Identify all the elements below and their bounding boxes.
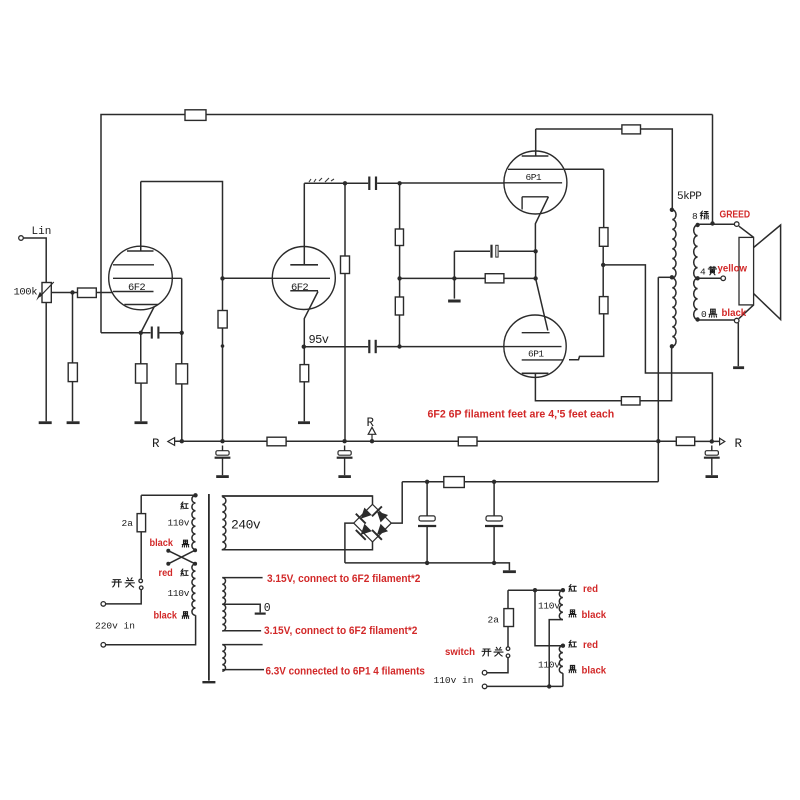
- wire R4 to ground: [140, 383, 142, 421]
- T1 parallel 110v winding B: [559, 646, 563, 674]
- wire V2 plate up: [303, 183, 305, 264]
- svg-text:220v in: 220v in: [95, 621, 135, 632]
- wire 0 tap out: [698, 319, 735, 321]
- label black B: [582, 665, 607, 676]
- svg-text:110v: 110v: [168, 518, 190, 529]
- junction pot wiper node: [70, 290, 74, 294]
- junction V3 cathode: [533, 249, 537, 253]
- junction cathode tie: [533, 276, 537, 280]
- transformer T1 core: [208, 494, 210, 681]
- V3 cathode slant down: [535, 197, 548, 252]
- label red red T1b: [159, 568, 173, 579]
- glyph guan right: [494, 647, 503, 656]
- svg-text:3.15V, connect to 6F2 filament: 3.15V, connect to 6F2 filament*2: [264, 625, 418, 637]
- V4 screen bar: [522, 359, 564, 361]
- V1 bottom electrode bar: [124, 304, 158, 306]
- label black A: [582, 610, 607, 621]
- node R rail left arrow: [168, 438, 175, 446]
- V1 cathode slant: [141, 307, 155, 333]
- resistor R9 V3 grid leak: [395, 229, 403, 246]
- wire V3 plate up: [535, 129, 537, 156]
- wire bias cap right: [499, 250, 536, 252]
- terminal 0: [734, 318, 739, 323]
- tube V2 6F2 (triode section) envelope: [272, 247, 335, 310]
- wire 240v bottom: [222, 549, 372, 551]
- glyph kai left: [112, 580, 121, 587]
- svg-text:6F2: 6F2: [128, 282, 145, 294]
- resistor R12 plate parasitic: [622, 125, 641, 134]
- junction C9 top: [492, 480, 496, 484]
- junction C8 bottom: [425, 561, 429, 565]
- wire R9 to bias node: [399, 246, 401, 279]
- terminal 8ohm: [734, 222, 739, 227]
- glyph black B: [569, 665, 576, 672]
- transformer T2 secondary 4ohm section: [694, 278, 698, 319]
- ground core: [202, 681, 215, 683]
- wire screen chain middle: [602, 246, 604, 296]
- junction secondary 0 tap: [695, 317, 699, 321]
- svg-text:5kPP: 5kPP: [677, 191, 702, 203]
- tube V4 6P1 (lower) envelope: [504, 315, 566, 377]
- resistor R7 V2 cathode: [300, 365, 309, 382]
- V3 cathode bar: [522, 197, 548, 210]
- artifact tick marks: [309, 178, 334, 182]
- wire center tap: [658, 276, 672, 278]
- wires C8 leads: [426, 482, 428, 563]
- junction V4 grid node: [397, 344, 401, 348]
- resistor R17 rail: [458, 437, 477, 446]
- wire R10 to lower grid node: [399, 315, 401, 347]
- svg-text:black: black: [150, 538, 174, 549]
- speaker SP1 cone: [754, 225, 781, 320]
- junction rail R8/C6: [342, 439, 346, 443]
- V4 plate bar: [522, 372, 549, 374]
- wire grid leak down: [72, 293, 74, 363]
- wire feedback top segment: [206, 114, 713, 116]
- junction rail R arrow up: [370, 439, 374, 443]
- svg-text:2a: 2a: [488, 615, 500, 626]
- resistor R18 rail: [676, 437, 694, 446]
- potentiometer RP1 100k body: [42, 283, 51, 303]
- wire to cathode bias node: [400, 277, 455, 279]
- wire cathode tie to V4 cathode: [536, 278, 548, 330]
- wire plate load upper: [222, 278, 224, 310]
- wire fuse to switch: [140, 532, 142, 579]
- junction screen node: [180, 331, 184, 335]
- V2 cathode slant and drop: [304, 292, 318, 347]
- junction grid leak mid: [397, 276, 401, 280]
- svg-text:black: black: [582, 665, 607, 676]
- V1 control grid bar: [113, 291, 154, 293]
- label red A: [583, 584, 598, 595]
- fuse F1 2a: [137, 514, 146, 532]
- glyph red 1: [181, 502, 188, 509]
- tube V3 6P1 (upper) envelope: [504, 151, 567, 214]
- wire screen node to R5: [181, 333, 183, 364]
- transformer T2 primary winding: [672, 210, 676, 346]
- ground filament CT: [255, 612, 266, 614]
- wire 4ohm tap out: [698, 277, 721, 279]
- junction V2 cathode node: [302, 345, 306, 349]
- svg-text:GREED: GREED: [720, 209, 751, 221]
- wire fuse to primary top: [141, 494, 195, 496]
- wire rail seg3: [477, 440, 676, 442]
- T1 secondary 3.15v upper: [222, 578, 225, 605]
- resistor R5 screen feed: [176, 364, 188, 384]
- wire pot bottom to ground: [45, 303, 47, 422]
- wire R11 right lead: [504, 277, 536, 279]
- glyph red B: [569, 640, 576, 647]
- wires C9 leads: [493, 482, 495, 563]
- svg-text:red: red: [159, 568, 173, 579]
- wire V3 screen out: [563, 168, 603, 170]
- V3 plate bar: [522, 155, 549, 157]
- junction secondary 4 tap: [695, 276, 699, 280]
- wire AC2 to 240v bottom: [222, 542, 373, 550]
- V3 screen bar: [508, 168, 563, 170]
- label black red T1a: [150, 538, 174, 549]
- svg-text:110v in: 110v in: [434, 675, 474, 686]
- junction winding A return: [547, 684, 551, 688]
- label red B: [583, 640, 598, 651]
- wire rail seg2: [286, 440, 458, 442]
- wire 6.3v bottom lead: [222, 669, 264, 671]
- junction rail R5: [180, 439, 184, 443]
- capacitor C3 coupling bottom: [368, 340, 370, 353]
- potentiometer RP1 wiper arrow: [40, 282, 54, 297]
- capacitor C5 rail filter: [216, 451, 229, 456]
- wire to OPT primary bottom: [640, 347, 672, 401]
- wire 3.15v bottom lead: [222, 630, 261, 632]
- junction 110v top: [533, 588, 537, 592]
- wire bias cap left: [454, 250, 490, 252]
- node R arrow up: [368, 427, 376, 434]
- resistor R6 V1 plate load: [218, 311, 227, 329]
- resistor R8 V2 plate load: [341, 256, 350, 274]
- glyph guan left: [125, 578, 134, 587]
- junction feedback takeoff: [710, 221, 714, 225]
- wire to V3 grid: [400, 182, 504, 184]
- wire V4 screen out jog: [569, 314, 604, 360]
- wire winding B bottom: [562, 673, 564, 686]
- glyph red 2: [181, 569, 188, 576]
- wire V1 screen drop: [181, 278, 183, 332]
- capacitor C8 PSU filter: [419, 516, 435, 521]
- V2 plate bar: [290, 264, 318, 266]
- diode D4: [377, 524, 388, 535]
- V1 screen grid bar: [113, 264, 154, 266]
- resistor R15 screen V4: [599, 297, 608, 314]
- T1 secondary 6.3v: [222, 645, 225, 672]
- glyph green: [700, 211, 708, 219]
- svg-text:2a: 2a: [122, 518, 134, 529]
- wire V2 plate node: [304, 182, 345, 184]
- wire 110v bottom link: [487, 685, 563, 687]
- wire fuse2 top lead: [507, 590, 509, 608]
- wire grid resistor lower upper-lead: [399, 278, 401, 297]
- terminal 220v neutral: [101, 643, 106, 648]
- wire R11 left lead: [454, 277, 485, 279]
- svg-text:0: 0: [701, 309, 707, 320]
- svg-text:110v: 110v: [538, 601, 560, 612]
- wire V3 plate top left: [536, 128, 622, 130]
- svg-text:red: red: [583, 584, 598, 595]
- svg-text:6.3V connected to 6P1 4 filame: 6.3V connected to 6P1 4 filaments: [266, 666, 426, 678]
- svg-text:3.15V, connect to 6F2 filament: 3.15V, connect to 6F2 filament*2: [267, 573, 421, 585]
- wire screen feed to rail: [603, 265, 712, 442]
- wire fuse lead top: [140, 495, 142, 513]
- wire 240v top: [222, 495, 372, 497]
- wire R1 to V1 grid: [96, 292, 113, 294]
- wire V2 grid entry: [223, 277, 273, 279]
- wire R5 to B+ rail: [181, 384, 183, 441]
- wire C3 to V4 grid: [377, 346, 504, 348]
- wire PSU 0V rail: [345, 563, 510, 570]
- label black red T1b: [154, 610, 178, 621]
- junction winding A top: [561, 588, 565, 592]
- wire 6.3v top lead: [222, 644, 262, 646]
- tube V1 6F2 (pentode section) envelope: [109, 246, 173, 310]
- fuse F2 2a: [504, 609, 514, 627]
- capacitor C1 cathode bypass: [151, 327, 153, 339]
- label 6.3V red: [266, 666, 426, 678]
- wire R6 to B+ rail: [222, 328, 224, 441]
- svg-text:6P1: 6P1: [526, 172, 542, 183]
- V2 cathode bar: [290, 290, 318, 292]
- wire cathode node left: [101, 332, 151, 334]
- junction plate load node: [343, 181, 347, 185]
- svg-text:240v: 240v: [231, 518, 261, 533]
- wire input to volume pot: [23, 238, 46, 283]
- resistor R11 cathode bias: [485, 274, 504, 283]
- wire 8ohm tap out: [698, 223, 735, 225]
- V4 grid bar: [504, 346, 562, 348]
- svg-text:6F2: 6F2: [291, 282, 308, 294]
- wire bias node vertical: [453, 251, 455, 298]
- terminal 110v neutral: [482, 684, 487, 689]
- label switch red: [445, 647, 475, 658]
- wire V1 plate to V2 grid: [141, 182, 223, 279]
- terminal 220v live: [101, 602, 106, 607]
- transformer T2 secondary 8ohm section: [694, 225, 698, 278]
- resistor R2 grid leak: [68, 363, 77, 382]
- wire speaker ground: [737, 323, 739, 366]
- V1 grid2 bar exits right: [113, 277, 182, 279]
- junction 6P1#1 grid node: [397, 181, 401, 185]
- glyph black 2: [182, 612, 189, 619]
- wire screen chain upper: [603, 169, 605, 227]
- svg-text:black: black: [154, 610, 178, 621]
- ground pot: [39, 421, 52, 424]
- wire winding A bottom: [549, 620, 563, 687]
- label filament note red: [428, 408, 615, 420]
- svg-text:R: R: [367, 416, 375, 430]
- ground bias network: [448, 300, 461, 303]
- T1 primary winding 110v upper: [192, 495, 196, 549]
- wire R7 to ground: [303, 382, 305, 422]
- ground R2: [67, 421, 80, 424]
- wires C2 leads: [345, 182, 400, 184]
- wire switch to terminal: [106, 590, 142, 604]
- svg-text:6F2 6P filament feet are 4,'5: 6F2 6P filament feet are 4,'5 feet each: [428, 408, 615, 420]
- diode D2: [377, 511, 388, 522]
- wire to OPT primary top: [641, 129, 673, 210]
- capacitor C6 rail filter: [338, 451, 351, 456]
- wire cathode tie vertical: [535, 251, 537, 278]
- label GREED red: [720, 209, 751, 221]
- wire switch2 to terminal: [487, 658, 508, 673]
- wire bridge minus: [345, 523, 354, 563]
- wire winding B top link: [535, 590, 563, 646]
- ground PSU: [503, 570, 516, 573]
- junction winding B top: [561, 644, 565, 648]
- wire V1 plate up: [140, 182, 142, 252]
- wire R8 to B+ rail: [344, 274, 346, 442]
- label 3.15V lower red: [264, 625, 418, 637]
- glyph black 1: [182, 540, 189, 547]
- glyph yellow: [708, 266, 716, 274]
- wire bridge plus: [391, 482, 402, 523]
- junction rail B+ riser: [656, 439, 660, 443]
- diode D3: [361, 524, 372, 535]
- glyph kai right: [482, 649, 491, 656]
- wire 3.15v center tap: [222, 604, 260, 612]
- junction V1 cathode: [139, 331, 143, 335]
- resistor R3 feedback: [185, 110, 206, 121]
- T1 parallel 110v winding A: [559, 590, 563, 619]
- wire 220v neutral to primary2 bottom: [106, 615, 196, 645]
- wire AC1 to 240v top: [222, 496, 373, 504]
- junction C8 top: [425, 480, 429, 484]
- bridge rectifier D1-D4: [354, 504, 392, 542]
- wire rail seg1: [175, 440, 267, 442]
- junction bias node: [452, 276, 456, 280]
- svg-text:red: red: [583, 640, 598, 651]
- T1 secondary 3.15v lower: [222, 604, 225, 631]
- wire grid resistor upper: [399, 183, 401, 229]
- wire cathode to R7: [303, 347, 305, 365]
- T1 primary winding 110v lower: [192, 564, 196, 616]
- capacitor C9 PSU filter: [486, 516, 502, 521]
- svg-text:6P1: 6P1: [528, 349, 544, 360]
- junction primary bottom: [670, 344, 674, 348]
- wire 3.15v top lead: [222, 577, 262, 579]
- svg-text:100k: 100k: [14, 287, 38, 299]
- wire fuse2 to switch2: [507, 627, 509, 647]
- svg-text:110v: 110v: [168, 588, 190, 599]
- primary series cross link: [168, 550, 195, 564]
- V1 plate bar: [127, 250, 154, 252]
- wire 110v top link: [508, 589, 563, 591]
- glyph black A: [569, 610, 576, 617]
- wire B+ riser: [657, 277, 659, 482]
- ground speaker: [733, 366, 744, 369]
- terminal 4ohm: [721, 276, 726, 281]
- capacitor C7 rail filter right: [705, 451, 718, 456]
- svg-text:black: black: [722, 308, 747, 319]
- speaker lead top: [739, 226, 754, 237]
- wire 95v node to C3: [304, 346, 368, 348]
- svg-text:yellow: yellow: [718, 263, 748, 274]
- svg-text:R: R: [735, 437, 743, 451]
- junction rail right: [710, 439, 714, 443]
- ground R4: [135, 421, 148, 424]
- wire PSU B+ top: [402, 481, 658, 483]
- V2 grid bar: [272, 277, 330, 279]
- wire pot wiper to grid resistor: [51, 292, 77, 294]
- wire R8 upper lead: [344, 183, 346, 256]
- wire feedback left segment: [101, 115, 185, 333]
- speaker SP1 box: [739, 237, 754, 305]
- junction artifact dot: [221, 344, 225, 348]
- svg-text:4: 4: [700, 267, 706, 278]
- capacitor C2 coupling top: [368, 177, 370, 191]
- svg-text:R: R: [152, 437, 160, 451]
- wire cathode to R4: [140, 333, 142, 364]
- glyph black: [709, 309, 717, 317]
- junction secondary 8 tap: [695, 223, 699, 227]
- svg-text:0: 0: [264, 602, 271, 615]
- node R rail right arrow: [720, 438, 725, 445]
- glyph red A: [569, 584, 576, 591]
- junction primary center tap: [670, 275, 674, 279]
- label black red: [722, 308, 747, 319]
- ground R7: [298, 421, 310, 424]
- junction primary1 top: [193, 493, 197, 497]
- V3 grid bar: [504, 182, 562, 184]
- speaker lead bottom: [739, 305, 754, 319]
- capacitor C4 cathode bypass 6P1: [490, 245, 492, 258]
- wire rail seg4: [695, 440, 720, 442]
- V4 cathode bar: [522, 332, 550, 334]
- wire R2 to ground: [72, 382, 74, 422]
- wire feedback right segment to 8ohm tap: [712, 115, 714, 224]
- label 3.15V upper red: [267, 573, 421, 585]
- wire V4 plate down: [535, 373, 621, 401]
- junction primary top: [670, 208, 674, 212]
- svg-text:Lin: Lin: [32, 226, 52, 238]
- svg-text:110v: 110v: [538, 660, 560, 671]
- junction rail R6/C5: [220, 439, 224, 443]
- resistor R16 rail: [267, 437, 286, 446]
- svg-text:switch: switch: [445, 647, 475, 658]
- resistor R10 V4 grid leak: [395, 297, 403, 315]
- diode D1: [361, 508, 372, 519]
- wire C1 to screen node: [160, 332, 182, 334]
- svg-text:95v: 95v: [309, 333, 329, 347]
- resistor R19 PSU filter: [444, 477, 465, 488]
- resistor R1 grid stopper: [78, 288, 97, 298]
- resistor R14 screen V3: [599, 228, 608, 247]
- junction screen feed: [601, 263, 605, 267]
- terminal 110v live: [482, 670, 487, 675]
- switch S2: [506, 647, 510, 651]
- label yellow red: [718, 263, 748, 274]
- junction V2 grid node: [220, 276, 224, 280]
- input terminal Lin: [19, 236, 24, 241]
- junction C9 bottom: [492, 561, 496, 565]
- resistor R13 plate parasitic: [621, 397, 640, 405]
- svg-text:black: black: [582, 610, 607, 621]
- resistor R4 V1 cathode: [136, 364, 148, 383]
- switch S1: [139, 579, 143, 583]
- svg-text:8: 8: [692, 211, 698, 222]
- T1 secondary 240v: [222, 497, 226, 550]
